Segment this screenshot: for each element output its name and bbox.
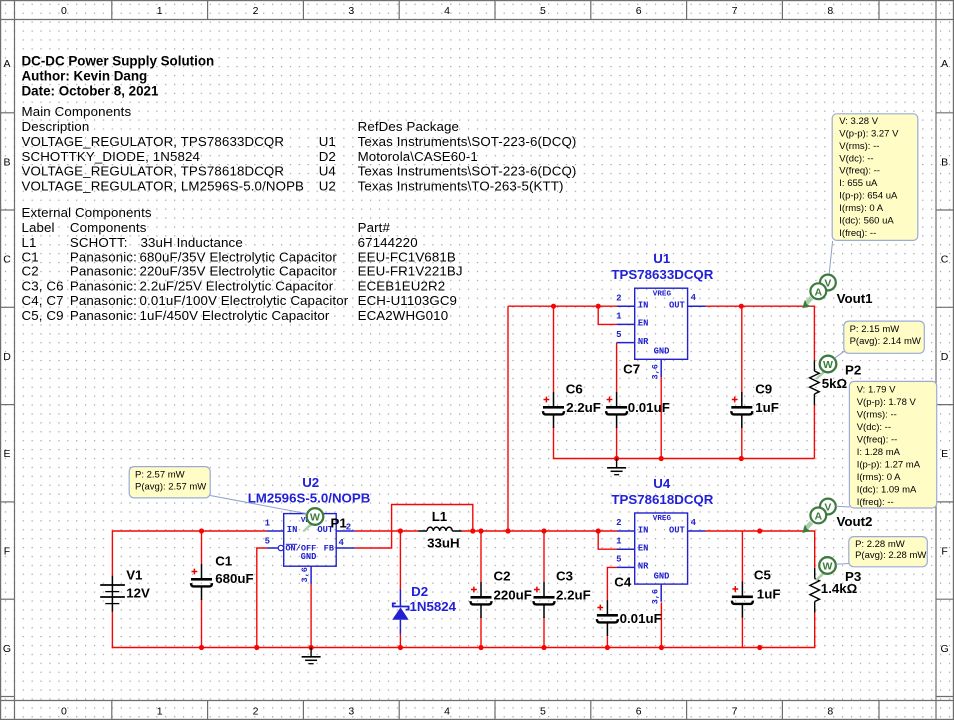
svg-text:External Components: External Components — [22, 205, 152, 220]
svg-text:C3, C6: C3, C6 — [22, 279, 64, 294]
svg-text:I(dc): 1.09 mA: I(dc): 1.09 mA — [857, 484, 917, 495]
svg-text:V(dc): --: V(dc): -- — [839, 153, 873, 164]
svg-text:TPS78633DCQR: TPS78633DCQR — [611, 267, 713, 282]
svg-text:V(dc): --: V(dc): -- — [857, 422, 891, 433]
svg-text:V(p-p): 1.78 V: V(p-p): 1.78 V — [857, 397, 917, 408]
junction D2/gnd — [398, 645, 403, 650]
diode D2 (schottky 1N5824) — [392, 584, 456, 634]
voltage regulator U1 TPS78633DCQR — [611, 251, 713, 380]
wire: L1 right to U4 IN (5V rail) — [462, 530, 617, 532]
wire: U2 FB loop over L1 — [355, 505, 473, 549]
capacitor C3 — [534, 569, 591, 619]
svg-text:B: B — [3, 156, 10, 168]
svg-text:EEU-FC1V681B: EEU-FC1V681B — [358, 249, 456, 264]
junction C2/gnd — [478, 645, 483, 650]
svg-text:P1: P1 — [331, 515, 348, 530]
svg-text:0.01uF: 0.01uF — [628, 400, 670, 415]
junction C1/gnd — [199, 645, 204, 650]
svg-text:C7: C7 — [623, 361, 640, 376]
svg-text:V1: V1 — [126, 567, 143, 582]
svg-text:V(freq): --: V(freq): -- — [857, 435, 898, 446]
svg-text:0.01uF: 0.01uF — [620, 611, 662, 626]
wire: U1 OUT to Vout1 / P2 — [706, 306, 815, 360]
svg-text:A: A — [815, 286, 823, 298]
junction C5/Vout2 — [757, 528, 762, 533]
svg-text:1: 1 — [265, 518, 271, 528]
wire: D2 anode/cathode connections — [399, 531, 401, 590]
svg-text:4: 4 — [444, 5, 450, 17]
svg-text:U1: U1 — [653, 251, 671, 266]
wire: C6 branch to upper ground rail — [553, 306, 555, 392]
probe Vout1 (V/A) — [802, 275, 873, 309]
resistor P3 1.4k — [810, 568, 861, 613]
svg-text:FB: FB — [324, 543, 334, 553]
voltage regulator U4 TPS78618DCQR — [611, 476, 713, 605]
wire: C2 branch — [480, 531, 482, 582]
power probe P3 — [815, 557, 836, 581]
svg-text:RefDes Package: RefDes Package — [358, 119, 459, 134]
svg-text:C: C — [941, 254, 949, 266]
wire: C1 branch — [201, 531, 203, 564]
svg-text:E: E — [941, 448, 948, 460]
svg-text:Label: Label — [22, 220, 55, 235]
svg-text:2.2uF: 2.2uF — [556, 588, 591, 603]
capacitor C6 — [543, 382, 601, 428]
svg-text:G: G — [3, 643, 11, 655]
junction C2/5V — [478, 528, 483, 533]
svg-text:A: A — [941, 58, 948, 70]
capacitor C7 — [606, 361, 670, 428]
leader line to Vout1 box — [829, 241, 832, 274]
svg-text:I(rms): 0 A: I(rms): 0 A — [839, 203, 883, 214]
junction U1 EN/input — [596, 304, 601, 309]
svg-text:Vout2: Vout2 — [837, 514, 873, 529]
svg-text:C4: C4 — [614, 574, 632, 589]
wire: lower ground rail — [112, 647, 816, 649]
svg-text:SCHOTT:: SCHOTT: — [70, 235, 128, 250]
svg-text:LM2596S-5.0/NOPB: LM2596S-5.0/NOPB — [248, 490, 371, 505]
wire: U1 input rail — [508, 305, 617, 307]
svg-text:6: 6 — [636, 706, 642, 718]
svg-text:VOLTAGE_REGULATOR, TPS78633DCQ: VOLTAGE_REGULATOR, TPS78633DCQR — [22, 134, 285, 149]
svg-text:C2: C2 — [22, 264, 39, 279]
svg-text:P: 2.57 mW: P: 2.57 mW — [135, 470, 185, 481]
svg-text:Motorola\CASE60-1: Motorola\CASE60-1 — [358, 149, 478, 164]
svg-text:Vout1: Vout1 — [837, 291, 874, 306]
power probe P2 — [815, 356, 836, 380]
junction D2/5V — [398, 528, 403, 533]
leader line to P1 power box — [210, 496, 307, 514]
svg-text:DC-DC Power Supply Solution: DC-DC Power Supply Solution — [22, 54, 215, 69]
svg-text:I(freq): --: I(freq): -- — [857, 497, 894, 508]
svg-text:ECA2WHG010: ECA2WHG010 — [358, 308, 449, 323]
wire: riser 5V rail to U1 input rail — [507, 306, 509, 531]
svg-text:P(avg): 2.57 mW: P(avg): 2.57 mW — [135, 481, 206, 492]
svg-text:4: 4 — [444, 706, 450, 718]
svg-text:5kΩ: 5kΩ — [822, 376, 848, 391]
svg-text:V(p-p): 3.27 V: V(p-p): 3.27 V — [839, 128, 899, 139]
svg-text:Panasonic:: Panasonic: — [70, 279, 137, 294]
svg-text:220uF: 220uF — [494, 588, 532, 603]
svg-text:5: 5 — [265, 536, 270, 546]
svg-text:C: C — [3, 254, 11, 266]
svg-text:7: 7 — [732, 5, 738, 17]
ground (lower, under U2) — [302, 648, 321, 664]
wire: U2 OUT to L1 left / D2 node — [355, 530, 418, 532]
capacitor C2 — [471, 569, 532, 619]
svg-text:E: E — [3, 448, 10, 460]
pin 1 IN stub — [267, 530, 284, 532]
junction U4 GND/gnd — [659, 645, 664, 650]
wire: U1 EN tie to input — [598, 306, 616, 324]
svg-text:V(rms): --: V(rms): -- — [857, 410, 897, 421]
svg-text:V: 3.28 V: V: 3.28 V — [839, 116, 878, 127]
measurement box Vout1 — [832, 114, 918, 241]
svg-text:0.01uF/100V Electrolytic Capac: 0.01uF/100V Electrolytic Capacitor — [140, 293, 349, 308]
svg-text:680uF: 680uF — [215, 571, 253, 586]
svg-text:220uF/35V Electrolytic Capacit: 220uF/35V Electrolytic Capacitor — [140, 264, 338, 279]
svg-text:1uF: 1uF — [755, 400, 779, 415]
svg-text:IN: IN — [287, 525, 298, 535]
junction C9/Vout1 — [739, 304, 744, 309]
junction riser/5V — [505, 528, 510, 533]
pin 2 OUT stub — [336, 530, 355, 532]
svg-text:Texas Instruments\SOT-223-6(DC: Texas Instruments\SOT-223-6(DCQ) — [358, 134, 577, 149]
svg-text:5: 5 — [540, 706, 546, 718]
svg-text:Panasonic:: Panasonic: — [70, 264, 137, 279]
svg-text:V(rms): --: V(rms): -- — [839, 141, 879, 152]
svg-text:VOLTAGE_REGULATOR, LM2596S-5.0: VOLTAGE_REGULATOR, LM2596S-5.0/NOPB — [22, 179, 305, 194]
svg-text:0: 0 — [61, 706, 67, 718]
svg-text:D: D — [3, 351, 11, 363]
wire: U2 GND to ground rail — [310, 584, 312, 648]
svg-text:U4: U4 — [319, 164, 336, 179]
junction C3/gnd — [541, 645, 546, 650]
svg-text:C1: C1 — [215, 554, 233, 569]
capacitor C1 — [191, 554, 254, 600]
battery V1 — [100, 567, 150, 611]
svg-text:P(avg): 2.28 mW: P(avg): 2.28 mW — [855, 550, 926, 561]
svg-text:0: 0 — [61, 5, 67, 17]
svg-text:C4, C7: C4, C7 — [22, 293, 64, 308]
measurement box P2 power — [844, 321, 925, 353]
svg-text:U1: U1 — [319, 134, 336, 149]
junction FB loop/5V — [470, 528, 475, 533]
svg-text:8: 8 — [827, 5, 833, 17]
capacitor C4 — [597, 574, 662, 636]
svg-text:Panasonic:: Panasonic: — [70, 249, 137, 264]
wire: upper ground rail — [553, 458, 555, 459]
svg-text:4: 4 — [339, 538, 345, 548]
ground (upper, under C7) — [607, 459, 626, 475]
svg-text:F: F — [4, 546, 10, 558]
wire: U4 NR to C4 — [607, 567, 616, 600]
svg-text:1N5824: 1N5824 — [410, 599, 457, 614]
svg-text:ECH-U1103GC9: ECH-U1103GC9 — [358, 293, 457, 308]
wire: C3 branch — [543, 531, 545, 582]
svg-text:C5, C9: C5, C9 — [22, 308, 64, 323]
wire: 12V rail V1 to U2 IN — [112, 531, 266, 577]
junction C3/5V — [541, 528, 546, 533]
svg-text:U2: U2 — [319, 179, 336, 194]
svg-text:P: 2.15 mW: P: 2.15 mW — [850, 324, 900, 335]
inductor L1 — [418, 509, 462, 550]
svg-text:33uH Inductance: 33uH Inductance — [141, 235, 243, 250]
pin 3,6 GND stub — [310, 566, 312, 584]
junction C5/gnd — [757, 645, 762, 650]
svg-text:Texas Instruments\SOT-223-6(DC: Texas Instruments\SOT-223-6(DCQ) — [358, 164, 577, 179]
svg-text:I(p-p): 1.27 mA: I(p-p): 1.27 mA — [857, 460, 921, 471]
svg-text:3: 3 — [348, 5, 354, 17]
title block — [22, 54, 215, 99]
buck regulator U2 LM2596S-5.0/NOPB — [248, 475, 371, 584]
power probe P1 on U2 — [302, 508, 347, 532]
pin 4 FB stub — [336, 547, 355, 549]
resistor P2 5k — [810, 361, 862, 406]
svg-text:EEU-FR1V221BJ: EEU-FR1V221BJ — [358, 264, 463, 279]
wire: U4 GND to ground rail — [660, 602, 662, 647]
wire: U2 ON/OFF to ground rail — [257, 548, 267, 648]
svg-text:3: 3 — [348, 706, 354, 718]
junction ON-OFF/gnd — [254, 645, 259, 650]
leader line to Vout2 box — [836, 505, 850, 508]
svg-text:A: A — [3, 58, 10, 70]
svg-text:U4: U4 — [653, 476, 671, 491]
svg-text:VOLTAGE_REGULATOR, TPS78618DCQ: VOLTAGE_REGULATOR, TPS78618DCQR — [22, 164, 285, 179]
svg-text:F: F — [941, 546, 947, 558]
svg-text:C3: C3 — [556, 569, 573, 584]
leader line to P3 power box — [836, 563, 849, 566]
svg-text:V(freq): --: V(freq): -- — [839, 166, 880, 177]
svg-text:5: 5 — [540, 5, 546, 17]
external components table — [22, 205, 463, 323]
svg-text:TPS78618DCQR: TPS78618DCQR — [611, 492, 713, 507]
svg-text:GND: GND — [301, 552, 317, 562]
svg-text:D2: D2 — [319, 149, 336, 164]
svg-text:33uH: 33uH — [427, 536, 460, 551]
svg-text:2: 2 — [253, 5, 259, 17]
probe Vout2 (V/A) — [802, 499, 872, 533]
svg-text:8: 8 — [827, 706, 833, 718]
pin 5 ON/OFF stub with bubble — [267, 547, 279, 549]
svg-text:P: 2.28 mW: P: 2.28 mW — [855, 539, 905, 550]
svg-text:P2: P2 — [845, 362, 861, 377]
junction C4/gnd — [605, 645, 610, 650]
svg-text:A: A — [815, 511, 823, 523]
wire: U1 NR to C7 to upper ground — [616, 343, 618, 392]
junction C7/upper gnd — [614, 456, 619, 461]
svg-text:I(dc): 560 uA: I(dc): 560 uA — [839, 216, 894, 227]
junction U1 GND/upper gnd — [659, 456, 664, 461]
svg-text:Description: Description — [22, 119, 90, 134]
svg-text:1: 1 — [157, 5, 163, 17]
svg-text:Author: Kevin Dang: Author: Kevin Dang — [22, 69, 148, 84]
junction C1/12V rail — [199, 528, 204, 533]
svg-text:680uF/35V Electrolytic Capacit: 680uF/35V Electrolytic Capacitor — [140, 249, 338, 264]
capacitor C5 — [732, 568, 781, 618]
svg-text:L1: L1 — [22, 235, 37, 250]
measurement box P1 power — [129, 467, 210, 498]
svg-text:I: 655 uA: I: 655 uA — [839, 178, 878, 189]
svg-text:D2: D2 — [411, 584, 428, 599]
svg-text:Panasonic:: Panasonic: — [70, 293, 137, 308]
svg-text:D: D — [941, 351, 949, 363]
svg-text:L1: L1 — [432, 509, 448, 524]
measurement box Vout2 — [849, 381, 936, 508]
svg-text:67144220: 67144220 — [358, 235, 418, 250]
capacitor C9 — [731, 382, 779, 429]
svg-text:3,6: 3,6 — [300, 567, 310, 582]
wire: C9 branch — [741, 306, 743, 392]
svg-text:Panasonic:: Panasonic: — [70, 308, 137, 323]
svg-text:1: 1 — [157, 706, 163, 718]
svg-text:B: B — [941, 156, 948, 168]
measurement box P3 power — [849, 537, 928, 567]
svg-text:C9: C9 — [755, 382, 772, 397]
svg-text:C1: C1 — [22, 249, 39, 264]
wire: U1 GND to upper ground rail — [660, 377, 662, 459]
svg-text:Texas Instruments\TO-263-5(KTT: Texas Instruments\TO-263-5(KTT) — [358, 179, 564, 194]
svg-text:Part#: Part# — [358, 220, 391, 235]
svg-text:2.2uF: 2.2uF — [566, 400, 601, 415]
svg-text:G: G — [941, 643, 949, 655]
svg-text:1uF/450V Electrolytic Capacito: 1uF/450V Electrolytic Capacitor — [140, 308, 330, 323]
svg-text:1uF: 1uF — [757, 587, 781, 602]
junction U4 EN/5V — [596, 528, 601, 533]
svg-text:I(p-p): 654 uA: I(p-p): 654 uA — [839, 191, 898, 202]
svg-text:P(avg): 2.14 mW: P(avg): 2.14 mW — [850, 336, 921, 347]
svg-text:Components: Components — [70, 220, 147, 235]
svg-text:1.4kΩ: 1.4kΩ — [821, 581, 858, 596]
junction U2 GND/gnd — [309, 645, 314, 650]
svg-text:6: 6 — [636, 5, 642, 17]
svg-text:Main Components: Main Components — [22, 104, 132, 119]
svg-text:ECEB1EU2R2: ECEB1EU2R2 — [358, 279, 446, 294]
svg-text:C2: C2 — [494, 569, 511, 584]
junction C9/upper gnd — [739, 456, 744, 461]
svg-text:2.2uF/25V Electrolytic Capacit: 2.2uF/25V Electrolytic Capacitor — [140, 279, 334, 294]
svg-text:C5: C5 — [754, 568, 772, 583]
wire: C5 branch — [741, 531, 743, 582]
wire: U4 OUT to Vout2 / P3 — [706, 531, 815, 568]
svg-text:7: 7 — [732, 706, 738, 718]
svg-text:I(rms): 0 A: I(rms): 0 A — [857, 472, 901, 483]
svg-text:U2: U2 — [302, 475, 319, 490]
svg-text:2: 2 — [253, 706, 259, 718]
svg-text:Date: October 8, 2021: Date: October 8, 2021 — [22, 83, 159, 98]
svg-text:12V: 12V — [126, 586, 150, 601]
svg-text:C6: C6 — [566, 382, 583, 397]
junction C6/input rail — [551, 304, 556, 309]
main components table — [22, 104, 577, 194]
svg-text:SCHOTTKY_DIODE, 1N5824: SCHOTTKY_DIODE, 1N5824 — [22, 149, 201, 164]
leader line to P2 power box — [835, 351, 846, 358]
svg-text:I(freq): --: I(freq): -- — [839, 228, 876, 239]
wire: U4 EN tie to input — [598, 531, 616, 549]
svg-text:I: 1.28 mA: I: 1.28 mA — [857, 447, 901, 458]
svg-text:V: 1.79 V: V: 1.79 V — [857, 385, 896, 396]
